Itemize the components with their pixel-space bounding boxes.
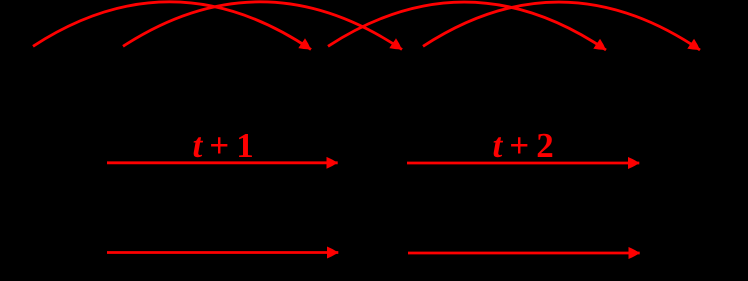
wire: straight arrow bottom left [107,251,338,254]
wire: curved arrow arc C (skip link 3) [328,2,606,50]
wire: straight arrow t+2 (middle right) [407,162,639,165]
wire: straight arrow t+1 (middle left) [107,161,338,164]
wire: curved arrow arc A (skip link 1) [33,2,311,50]
svg-text:t+1: t+1 [193,126,254,165]
svg-text:t+2: t+2 [493,126,554,165]
wire: straight arrow bottom right [408,252,640,255]
wire: curved arrow arc D (skip link 4) [423,2,700,50]
wire: curved arrow arc B (skip link 2) [123,2,402,50]
